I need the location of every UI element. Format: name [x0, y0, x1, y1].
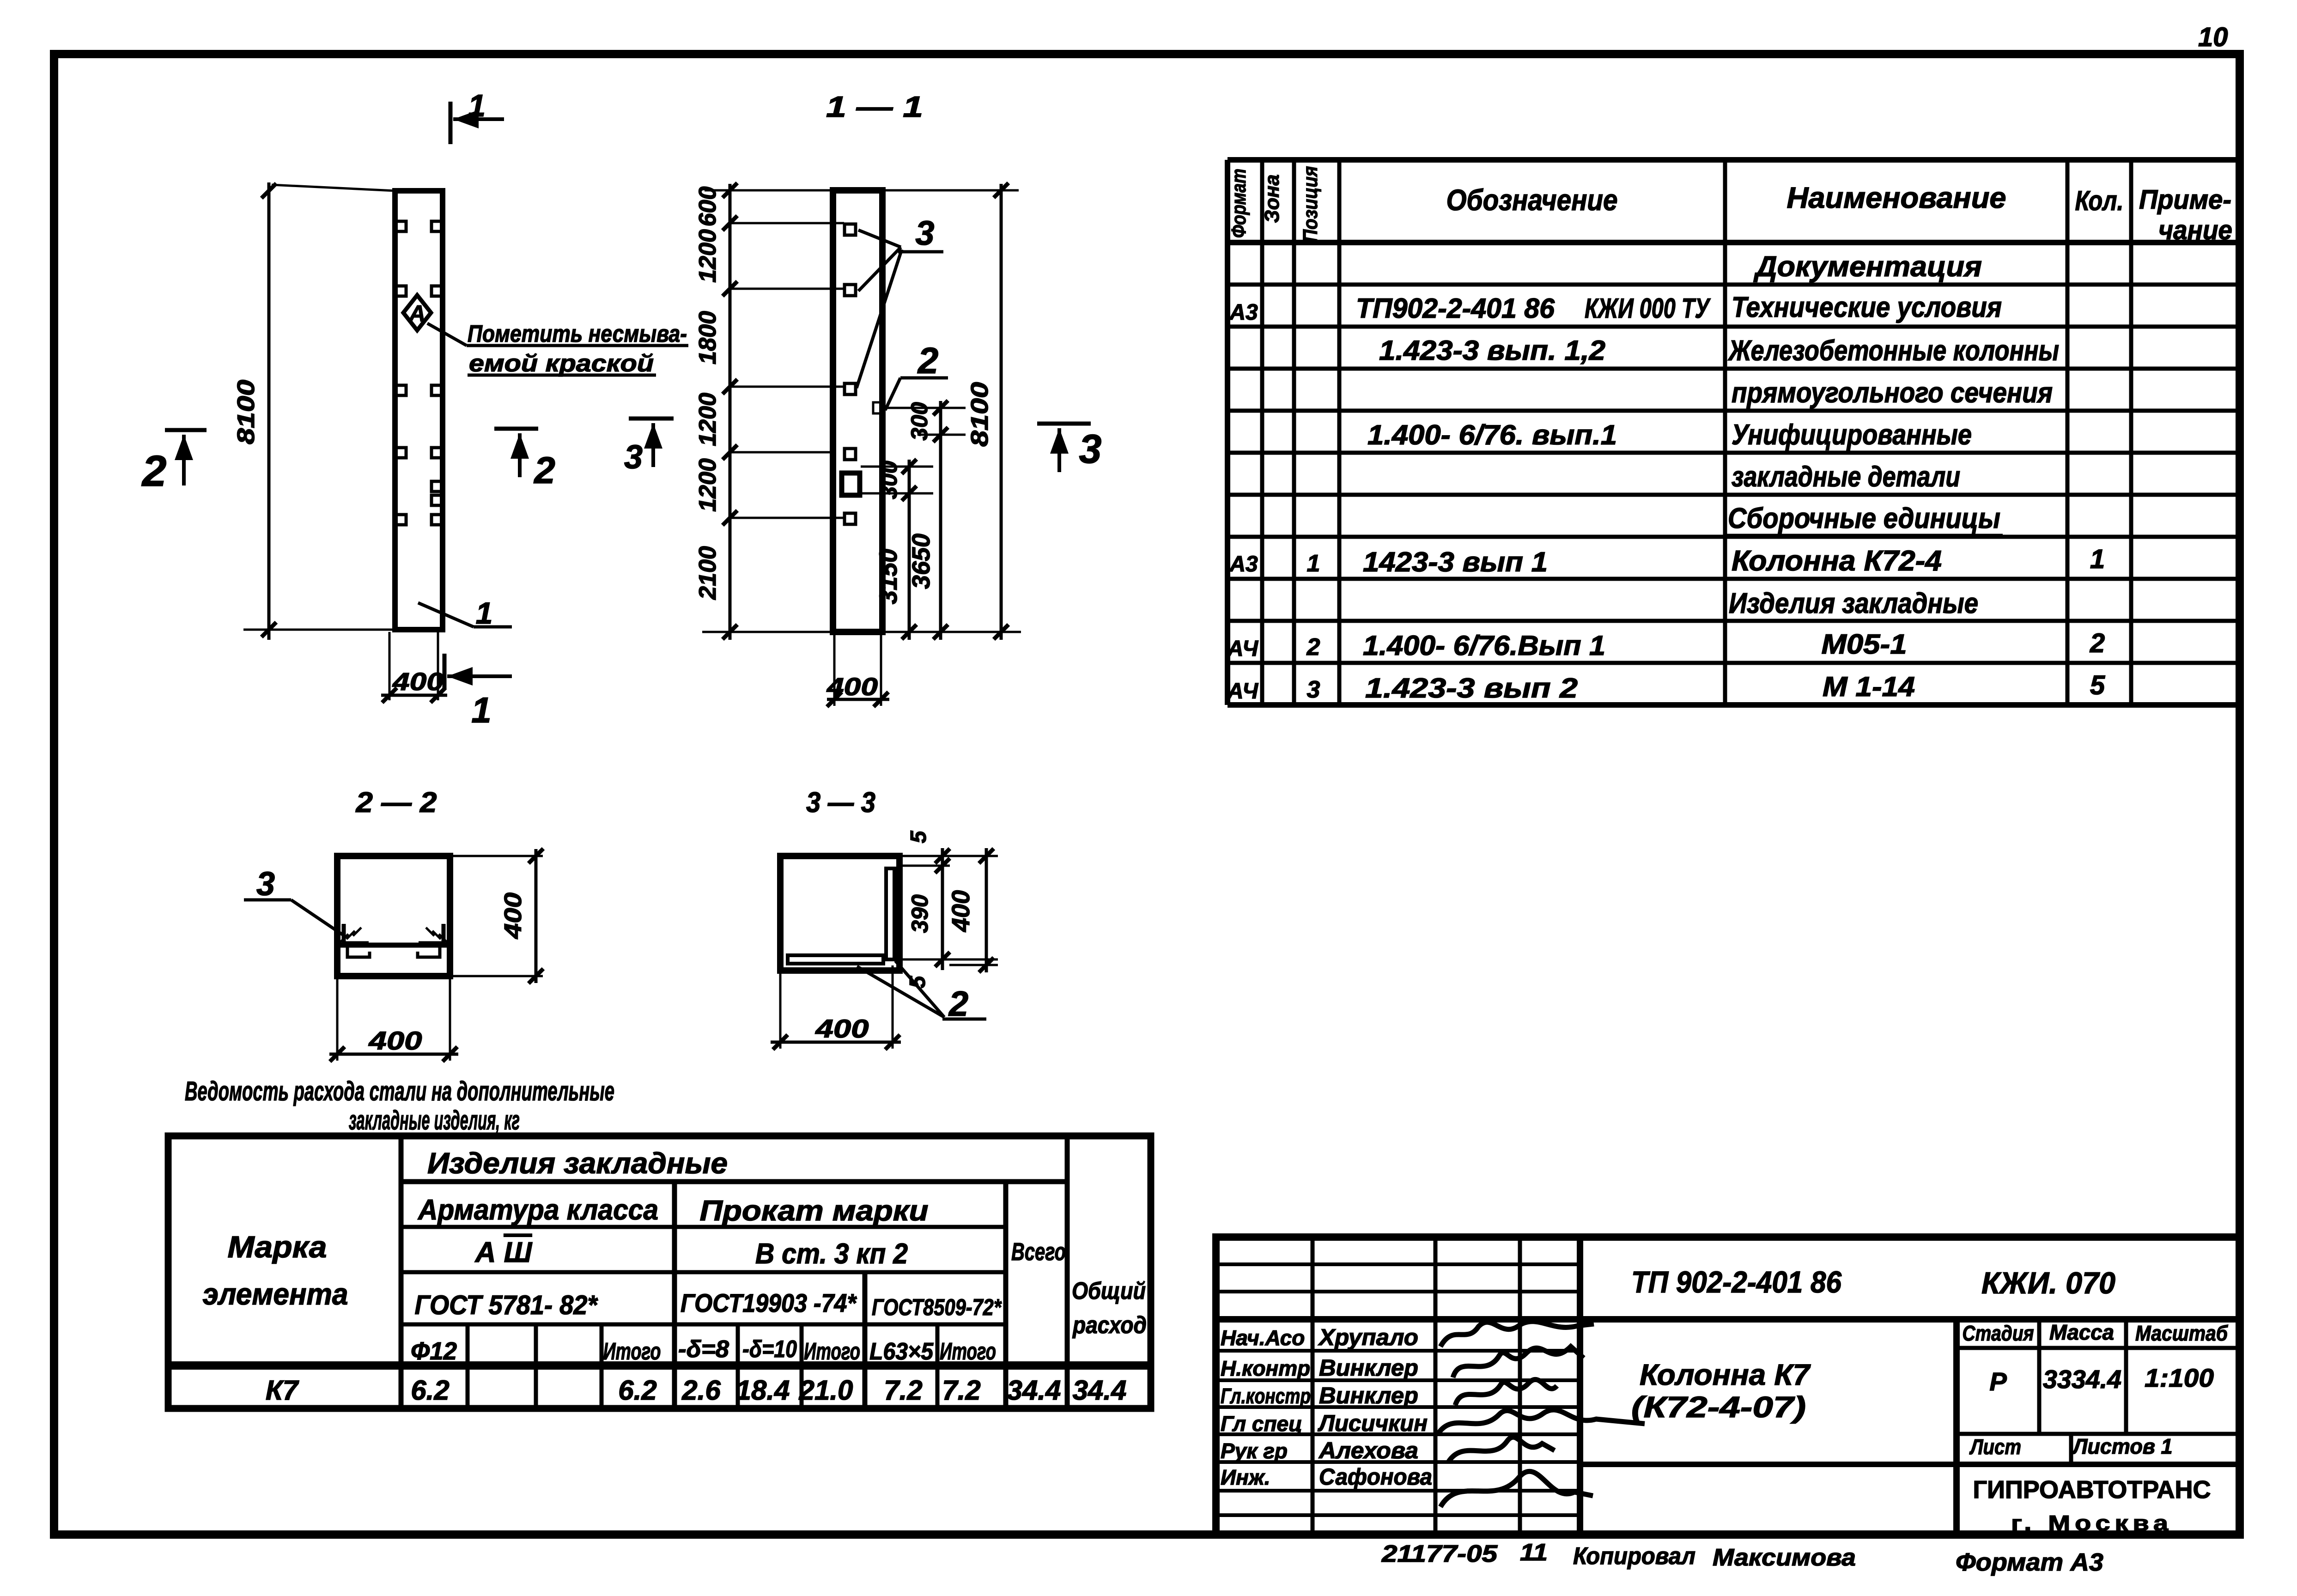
- svg-text:А3: А3: [1229, 300, 1258, 325]
- svg-text:Масштаб: Масштаб: [2135, 1321, 2228, 1345]
- svg-text:2: 2: [917, 340, 939, 381]
- svg-text:Итого: Итого: [603, 1338, 661, 1365]
- svg-text:Копировал: Копировал: [1573, 1543, 1695, 1570]
- svg-text:Изделия закладные: Изделия закладные: [427, 1147, 728, 1180]
- svg-text:Изделия закладные: Изделия закладные: [1729, 588, 1978, 619]
- svg-text:1: 1: [2090, 544, 2105, 574]
- svg-text:6.2: 6.2: [411, 1375, 449, 1406]
- svg-text:1: 1: [476, 596, 493, 630]
- svg-text:600: 600: [694, 187, 721, 227]
- svg-text:7.2: 7.2: [884, 1375, 922, 1406]
- svg-text:А3: А3: [1229, 552, 1258, 577]
- svg-text:Винклер: Винклер: [1319, 1355, 1418, 1381]
- svg-text:Пометить несмыва-: Пометить несмыва-: [468, 321, 687, 347]
- svg-text:1: 1: [468, 88, 486, 123]
- svg-text:емой краской: емой краской: [469, 350, 654, 377]
- svg-text:Наименование: Наименование: [1787, 181, 2006, 214]
- svg-text:3: 3: [256, 866, 275, 903]
- svg-text:Хрупало: Хрупало: [1318, 1324, 1418, 1350]
- svg-text:1.423-3 вып. 1,2: 1.423-3 вып. 1,2: [1379, 335, 1605, 366]
- svg-text:34.4: 34.4: [1007, 1375, 1061, 1406]
- svg-text:400: 400: [826, 673, 878, 701]
- svg-text:400: 400: [815, 1014, 869, 1043]
- svg-text:1:100: 1:100: [2145, 1363, 2214, 1392]
- svg-text:Лисичкин: Лисичкин: [1318, 1410, 1428, 1436]
- svg-text:А: А: [408, 301, 425, 327]
- svg-text:М 1-14: М 1-14: [1823, 671, 1915, 702]
- svg-text:Железобетонные колонны: Железобетонные колонны: [1727, 335, 2059, 367]
- svg-text:Н.контр: Н.контр: [1221, 1356, 1310, 1380]
- svg-text:3: 3: [1307, 676, 1320, 703]
- svg-text:Колонна К72-4: Колонна К72-4: [1732, 545, 1942, 577]
- svg-text:1.423-3 вып 2: 1.423-3 вып 2: [1365, 673, 1578, 704]
- svg-text:Прокат марки: Прокат марки: [700, 1195, 929, 1227]
- svg-text:8100: 8100: [233, 380, 260, 444]
- svg-text:Ведомость расхода стали на: Ведомость расхода стали на дополнительны…: [185, 1076, 614, 1106]
- svg-text:8100: 8100: [966, 382, 993, 447]
- svg-text:элемента: элемента: [203, 1277, 348, 1311]
- svg-text:400: 400: [368, 1026, 422, 1055]
- svg-text:2 — 2: 2 — 2: [355, 787, 437, 819]
- svg-text:3: 3: [624, 439, 643, 476]
- svg-text:6.2: 6.2: [618, 1375, 656, 1406]
- svg-text:Максимова: Максимова: [1713, 1544, 1856, 1571]
- svg-text:ТП902-2-401 86: ТП902-2-401 86: [1356, 293, 1555, 324]
- svg-text:Винклер: Винклер: [1319, 1383, 1418, 1408]
- svg-text:Сборочные единицы: Сборочные единицы: [1728, 503, 2000, 534]
- svg-text:А Ш: А Ш: [474, 1237, 533, 1268]
- svg-text:3150: 3150: [875, 549, 902, 604]
- svg-text:2: 2: [141, 447, 167, 496]
- svg-text:Формат А3: Формат А3: [1956, 1548, 2103, 1576]
- svg-text:Колонна К7: Колонна К7: [1640, 1358, 1811, 1391]
- svg-text:К7: К7: [266, 1375, 299, 1406]
- svg-text:Инж.: Инж.: [1221, 1465, 1270, 1489]
- svg-text:Формат: Формат: [1227, 169, 1250, 238]
- svg-text:1.400- 6/76. вып.1: 1.400- 6/76. вып.1: [1367, 419, 1617, 450]
- svg-text:-δ=8: -δ=8: [678, 1336, 729, 1363]
- svg-text:34.4: 34.4: [1073, 1375, 1127, 1406]
- svg-text:Гл спец: Гл спец: [1221, 1412, 1302, 1436]
- svg-text:Технические условия: Технические условия: [1732, 291, 2002, 323]
- svg-text:1800: 1800: [694, 311, 721, 364]
- svg-text:Ф12: Ф12: [411, 1337, 457, 1365]
- svg-text:М05-1: М05-1: [1822, 629, 1907, 660]
- svg-text:3 — 3: 3 — 3: [806, 787, 875, 819]
- svg-text:Всего: Всего: [1011, 1238, 1066, 1266]
- svg-text:(К72-4-07): (К72-4-07): [1631, 1390, 1806, 1424]
- svg-text:Лист: Лист: [1969, 1435, 2021, 1459]
- svg-text:2: 2: [533, 449, 555, 492]
- svg-text:Листов 1: Листов 1: [2072, 1434, 2173, 1458]
- svg-text:ГОСТ8509-72*: ГОСТ8509-72*: [872, 1294, 1002, 1320]
- svg-text:10: 10: [2198, 22, 2228, 52]
- svg-text:закладные детали: закладные детали: [1732, 461, 1960, 493]
- svg-text:3: 3: [915, 214, 934, 252]
- svg-text:Позиция: Позиция: [1299, 166, 1322, 242]
- svg-text:1423-3 вып 1: 1423-3 вып 1: [1363, 546, 1548, 577]
- svg-text:2.6: 2.6: [681, 1375, 721, 1406]
- svg-text:Итого: Итого: [940, 1338, 996, 1365]
- svg-text:Гл.констр: Гл.констр: [1221, 1384, 1311, 1408]
- svg-text:КЖИ 000 ТУ: КЖИ 000 ТУ: [1585, 293, 1711, 324]
- svg-text:3650: 3650: [907, 534, 935, 589]
- svg-text:расход: расход: [1072, 1312, 1147, 1339]
- svg-text:5: 5: [906, 830, 931, 843]
- svg-text:1.400- 6/76.Вып 1: 1.400- 6/76.Вып 1: [1363, 630, 1605, 661]
- svg-text:Кол.: Кол.: [2075, 185, 2124, 216]
- svg-text:Документация: Документация: [1753, 251, 1982, 283]
- svg-text:400: 400: [392, 668, 444, 696]
- svg-text:КЖИ. 070: КЖИ. 070: [1981, 1266, 2115, 1300]
- svg-text:1: 1: [471, 690, 491, 730]
- svg-text:1200: 1200: [694, 458, 721, 512]
- svg-text:390: 390: [907, 894, 933, 933]
- svg-text:2: 2: [2090, 628, 2105, 658]
- svg-text:прямоугольного сечения: прямоугольного сечения: [1732, 377, 2053, 409]
- svg-text:18.4: 18.4: [736, 1375, 790, 1406]
- svg-text:400: 400: [947, 890, 975, 932]
- svg-text:Итого: Итого: [804, 1338, 860, 1365]
- svg-text:г. Москва: г. Москва: [2011, 1511, 2173, 1535]
- svg-text:3: 3: [1079, 426, 1102, 472]
- svg-text:Сафонова: Сафонова: [1319, 1464, 1432, 1490]
- svg-text:Рук гр: Рук гр: [1221, 1439, 1288, 1463]
- svg-text:Марка: Марка: [228, 1230, 327, 1264]
- svg-text:Зона: Зона: [1261, 175, 1283, 223]
- svg-text:Нач.Асо: Нач.Асо: [1221, 1326, 1305, 1350]
- svg-text:Обозначение: Обозначение: [1446, 183, 1618, 217]
- svg-text:11: 11: [1520, 1539, 1548, 1566]
- svg-text:ТП 902-2-401 86: ТП 902-2-401 86: [1631, 1265, 1842, 1299]
- svg-text:2: 2: [1306, 634, 1320, 661]
- svg-text:Унифицированные: Унифицированные: [1732, 419, 1972, 451]
- svg-text:-δ=10: -δ=10: [742, 1336, 797, 1363]
- svg-text:Арматура класса: Арматура класса: [417, 1194, 658, 1226]
- svg-text:В ст. 3 кп 2: В ст. 3 кп 2: [755, 1238, 908, 1270]
- svg-text:Приме-: Приме-: [2139, 185, 2231, 215]
- svg-text:Алехова: Алехова: [1318, 1438, 1418, 1463]
- svg-text:АЧ: АЧ: [1227, 637, 1258, 661]
- svg-text:АЧ: АЧ: [1227, 679, 1258, 704]
- svg-text:5: 5: [2090, 670, 2105, 700]
- svg-text:3334.4: 3334.4: [2043, 1365, 2121, 1394]
- svg-text:Общий: Общий: [1072, 1278, 1146, 1305]
- svg-text:7.2: 7.2: [942, 1375, 980, 1406]
- svg-text:21177-05: 21177-05: [1381, 1541, 1498, 1567]
- svg-text:ГОСТ 5781- 82*: ГОСТ 5781- 82*: [415, 1290, 598, 1320]
- svg-text:1200: 1200: [694, 229, 721, 283]
- svg-text:закладные изделия, кг: закладные изделия, кг: [349, 1105, 520, 1135]
- svg-text:чание: чание: [2158, 215, 2232, 245]
- svg-text:L63×5: L63×5: [869, 1338, 934, 1365]
- svg-text:400: 400: [500, 892, 527, 939]
- svg-text:2100: 2100: [694, 546, 721, 600]
- svg-text:Масса: Масса: [2049, 1320, 2114, 1344]
- svg-text:Стадия: Стадия: [1963, 1321, 2034, 1345]
- svg-text:ГОСТ19903 -74*: ГОСТ19903 -74*: [681, 1288, 857, 1317]
- svg-text:1 — 1: 1 — 1: [826, 90, 923, 123]
- svg-text:1: 1: [1307, 550, 1320, 577]
- svg-text:1200: 1200: [694, 393, 721, 446]
- svg-text:21.0: 21.0: [799, 1375, 853, 1406]
- svg-text:ГИПРОАВТОТРАНС: ГИПРОАВТОТРАНС: [1973, 1476, 2211, 1504]
- svg-text:Р: Р: [1989, 1367, 2007, 1396]
